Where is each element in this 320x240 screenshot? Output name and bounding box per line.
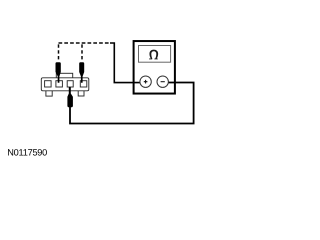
svg-text:N0117590: N0117590 (7, 147, 47, 157)
